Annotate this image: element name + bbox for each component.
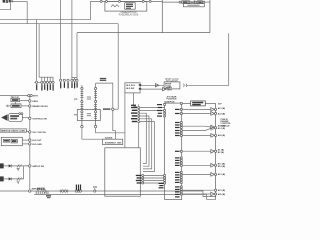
svg-text:A21 (B): A21 (B) xyxy=(218,107,226,110)
inline connector pair xyxy=(28,95,30,97)
service check strip xyxy=(0,129,29,133)
wire drop x77 from line C xyxy=(76,33,78,78)
pin labels group2 xyxy=(60,82,78,88)
bus junction circles xyxy=(215,108,217,195)
solenoid bottom leads xyxy=(81,125,97,127)
svg-text:A26 (B): A26 (B) xyxy=(218,193,226,196)
service connector box xyxy=(6,104,29,108)
interlock control unit box xyxy=(164,79,180,89)
inline connector on bus xyxy=(60,190,68,193)
node circle DATA xyxy=(29,100,31,102)
svg-text:FUSE/RELAY BOX: FUSE/RELAY BOX xyxy=(119,14,139,17)
svg-text:ELD GND: ELD GND xyxy=(32,144,42,146)
svg-text:SOLENOID: SOLENOID xyxy=(166,81,178,83)
wire far-right drop xyxy=(187,33,229,85)
svg-text:ELD OUT: ELD OUT xyxy=(32,140,42,142)
HLD solenoid box xyxy=(125,83,141,93)
svg-text:IGP: IGP xyxy=(218,103,222,105)
connector pin circles row xyxy=(36,81,55,83)
svg-text:AMPLIF SIG: AMPLIF SIG xyxy=(32,165,44,168)
svg-text:A10 (B): A10 (B) xyxy=(218,173,226,176)
svg-text:TEST 2P: TEST 2P xyxy=(11,97,20,99)
wire row 2 with arrow xyxy=(140,88,163,90)
connector column labels xyxy=(131,105,137,123)
svg-text:DATA: DATA xyxy=(32,100,38,103)
svg-text:SVC CHK SIG: SVC CHK SIG xyxy=(32,132,46,134)
wire x118 down to gauge xyxy=(113,110,116,139)
pin wire-color labels xyxy=(36,84,54,90)
connector column mid xyxy=(138,105,140,148)
lower pin cluster xyxy=(136,175,165,189)
wire drop x36.6 xyxy=(36,20,38,81)
svg-text:POSITION: POSITION xyxy=(167,99,177,101)
svg-text:HLD SW: HLD SW xyxy=(126,88,134,90)
wire stubs bus2 xyxy=(75,78,78,80)
node circle BRAKE xyxy=(29,105,31,107)
main left signal line xyxy=(29,97,31,191)
wire bus2 xyxy=(72,77,77,79)
node circle row A xyxy=(29,165,31,167)
wire vertical x27 xyxy=(26,1,28,23)
wire pin bus xyxy=(39,76,53,78)
wire pin stubs xyxy=(42,77,53,81)
ECM output rows to bus xyxy=(182,109,215,194)
fuse box connector cluster top-left xyxy=(3,0,13,3)
ELD unit box xyxy=(1,137,28,145)
junction circle x113 xyxy=(112,108,114,110)
ground comb connector xyxy=(36,188,51,199)
secondary ground wire xyxy=(34,194,215,199)
solenoid column left xyxy=(81,85,84,125)
svg-text:STOP/HLD SW: STOP/HLD SW xyxy=(32,118,46,120)
wire from HLD box down xyxy=(134,93,139,108)
svg-text:WHT: WHT xyxy=(167,90,172,92)
ECM name block xyxy=(221,119,232,128)
wire arrow into unit xyxy=(140,84,164,86)
diode row B xyxy=(0,166,24,184)
gauge label box xyxy=(103,137,123,145)
wire solenoid top feed over to drop xyxy=(96,83,113,108)
diode row A xyxy=(0,163,29,170)
svg-text:WHT: WHT xyxy=(33,96,38,98)
svg-text:SERVICE CHECK CONN: SERVICE CHECK CONN xyxy=(1,131,25,133)
svg-text:A22 (B): A22 (B) xyxy=(218,112,226,115)
wire line B xyxy=(0,23,118,25)
svg-text:A12 (B): A12 (B) xyxy=(218,127,226,130)
abs control unit box xyxy=(105,148,141,196)
node circles ELD xyxy=(29,139,31,141)
wires from connector column xyxy=(140,108,165,172)
solenoid column right xyxy=(94,83,97,125)
diode assembly box top-right xyxy=(162,1,210,7)
wire through pin row xyxy=(34,81,54,83)
svg-text:A15 (B): A15 (B) xyxy=(218,189,226,192)
svg-text:A20 (B): A20 (B) xyxy=(218,134,226,137)
connector pin circles group2 xyxy=(60,79,79,81)
junction circle on bus xyxy=(93,186,97,192)
bottom ground bus xyxy=(0,191,216,197)
ECM box xyxy=(165,103,182,199)
stop relay oval xyxy=(1,113,28,122)
wire line C xyxy=(77,32,210,34)
svg-text:GAUGE: GAUGE xyxy=(105,137,113,140)
svg-text:BRAKE SW SIG: BRAKE SW SIG xyxy=(32,105,48,108)
inline connector xyxy=(183,84,187,87)
svg-text:AMPLIF: AMPLIF xyxy=(32,188,40,191)
enclosure box top-right xyxy=(162,0,210,33)
wire riser to relay wire xyxy=(90,1,92,19)
svg-text:ECM/PCM: ECM/PCM xyxy=(165,101,175,103)
svg-text:B2 (B): B2 (B) xyxy=(218,152,224,154)
ECM left edge pins xyxy=(157,104,166,184)
wire drop x39.1 xyxy=(38,24,40,77)
wire from fuse cluster to node xyxy=(13,0,27,2)
svg-text:MODULE: MODULE xyxy=(221,125,231,127)
wire line A xyxy=(0,19,91,21)
right vertical bus xyxy=(215,103,217,199)
bus labels xyxy=(218,107,226,196)
triple junction on bus xyxy=(75,185,81,193)
solenoid body box xyxy=(74,97,100,121)
top ECM output wire with relay box xyxy=(182,102,215,104)
svg-text:ASSEMBLY 1996: ASSEMBLY 1996 xyxy=(105,142,122,145)
wire right solenoid to box xyxy=(96,128,125,133)
wire stub to left edge xyxy=(0,3,11,10)
ECM right pin labels xyxy=(175,109,180,198)
data link connector box xyxy=(11,97,29,104)
wire long drop x118 xyxy=(117,24,119,110)
node circle SVC xyxy=(29,131,31,133)
relay box top-middle xyxy=(91,0,163,16)
ECM right edge pins xyxy=(180,103,182,196)
wire drop x60.6 xyxy=(60,0,62,79)
wire to left inline connector xyxy=(0,95,28,97)
node circle STOP xyxy=(29,117,31,119)
svg-text:HLD SOL: HLD SOL xyxy=(126,85,136,87)
node circle bus left xyxy=(29,190,31,192)
arrowheads xyxy=(211,108,215,196)
svg-text:B12 (B): B12 (B) xyxy=(218,166,226,168)
wire left solenoid to box xyxy=(82,128,103,139)
wire drop x71.9 xyxy=(71,0,73,79)
